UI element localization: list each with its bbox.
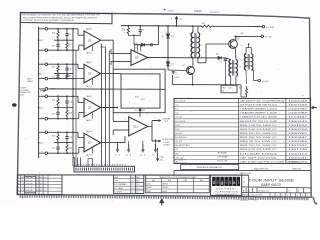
- wire T1 connections: [192, 26, 194, 32]
- svg-text:C5,C8: C5,C8: [176, 117, 183, 119]
- svg-text:CHG 14B: CHG 14B: [26, 180, 33, 182]
- svg-text:1000041: 1000041: [288, 157, 309, 159]
- svg-text:4: 4: [277, 195, 278, 197]
- arrow annotation below border: [160, 199, 164, 206]
- diode D27: [167, 61, 169, 62]
- svg-text:R24: R24: [52, 100, 55, 102]
- svg-text:10-9: 10-9: [136, 188, 139, 190]
- svg-text:E1 TEST: E1 TEST: [266, 27, 275, 29]
- wire mid stub: [128, 35, 140, 37]
- note box: [21, 13, 113, 24]
- svg-text:CHG 34B: CHG 34B: [26, 187, 33, 189]
- handwritten scribble bottom left of title: [241, 199, 257, 200]
- capacitor C6: [66, 29, 68, 34]
- op-amp E4 pin label bottom: [92, 148, 94, 154]
- svg-text:1300447: 1300447: [288, 137, 309, 139]
- op-amp E1: [84, 31, 101, 50]
- resistor R16: [57, 29, 59, 40]
- wire NC stub: [157, 148, 159, 159]
- svg-text:05-40: 05-40: [19, 95, 24, 97]
- capacitor C16: [66, 132, 68, 136]
- svg-text:C1,C7,C9: C1,C7,C9: [176, 101, 186, 103]
- connector terminal pin 1: [39, 28, 45, 30]
- svg-text:A-PL-B6022-0: A-PL-B6022-0: [287, 161, 298, 164]
- svg-text:R16: R16: [52, 32, 55, 34]
- resistor R56 loop: [245, 70, 247, 73]
- svg-text:10-4: 10-4: [136, 181, 139, 183]
- svg-text:D6,D8: D6,D8: [176, 133, 183, 135]
- resistor R25: [57, 132, 59, 142]
- svg-text:11-2: 11-2: [131, 192, 134, 194]
- capacitor C14: [66, 96, 68, 101]
- svg-text:RES 10K 5% 1/4W CC: RES 10K 5% 1/4W CC: [240, 137, 278, 139]
- svg-text:TRANSISTOR & DIODE CONVERSION: TRANSISTOR & DIODE CONVERSION CHART: [159, 176, 197, 179]
- svg-text:9: 9: [302, 195, 303, 197]
- svg-text:CHG 04B: CHG 04B: [26, 177, 33, 179]
- svg-text:C15: C15: [52, 113, 55, 115]
- wire to op-amp E3 inputs: [73, 95, 78, 97]
- svg-text:TRANSISTOR DEC 3009B: TRANSISTOR DEC 3009B: [240, 116, 278, 119]
- svg-text:E4: E4: [88, 141, 92, 145]
- transistor Q1: [187, 67, 195, 75]
- output wire EL OUT: [235, 35, 261, 37]
- svg-text:D664: D664: [147, 183, 151, 185]
- svg-text:FB(L) 2: FB(L) 2: [38, 40, 44, 42]
- svg-text:9-4: 9-4: [44, 187, 46, 189]
- wire E1 output: [101, 39, 114, 41]
- wires T3 top: [245, 48, 247, 54]
- svg-text:R1,R4,R7,R10: R1,R4,R7,R10: [176, 145, 191, 147]
- svg-text:3: 3: [189, 57, 190, 59]
- channel E3 input wires: [49, 95, 73, 97]
- svg-text:CHG 44B: CHG 44B: [26, 190, 33, 192]
- svg-text:LAS (B)VAR: LAS (B)VAR: [217, 152, 228, 155]
- svg-text:RES 4.7K 5% 1/4W CC: RES 4.7K 5% 1/4W CC: [240, 149, 278, 151]
- connector terminal pin 5: [39, 95, 45, 97]
- wire GND rail: [49, 88, 165, 90]
- svg-text:R50: R50: [222, 87, 225, 89]
- diode D3 to test point: [134, 44, 141, 46]
- svg-text:C4: C4: [220, 62, 222, 64]
- wires to edge connector: [74, 158, 76, 167]
- parts list table: [174, 99, 311, 164]
- svg-text:SPLIT: SPLIT: [27, 79, 33, 81]
- wire to op-amp E1 inputs: [73, 28, 78, 30]
- svg-text:D26: D26: [171, 36, 174, 38]
- wire to Q1 base: [168, 69, 186, 72]
- svg-text:24022/C-7: 24022/C-7: [210, 12, 221, 14]
- svg-text:D24: D24: [216, 54, 219, 56]
- capacitor C4: [66, 64, 68, 68]
- svg-text:l: l: [238, 180, 239, 185]
- svg-text:PRINTED CIRCUIT REV.: PRINTED CIRCUIT REV.: [242, 195, 263, 197]
- svg-text:-15: -15: [152, 154, 155, 156]
- signature date column: [136, 175, 144, 194]
- resistor R47 on rail: [199, 25, 214, 27]
- svg-text:1300364: 1300364: [288, 141, 309, 143]
- resistor R28: [66, 143, 68, 154]
- page-edge mark: [12, 103, 17, 106]
- svg-text:1050348: 1050348: [288, 105, 309, 107]
- svg-text:(NC): (NC): [159, 159, 163, 161]
- svg-text:FB(L) 1: FB(L) 1: [38, 73, 44, 75]
- svg-text:E3: E3: [88, 106, 92, 110]
- svg-text:R25: R25: [52, 135, 55, 137]
- test point E1 TEST: [262, 25, 264, 27]
- svg-text:CAP 100PF 100V 5% MIC: CAP 100PF 100V 5% MIC: [240, 156, 278, 159]
- connector terminal pin 8: [39, 152, 45, 154]
- svg-text:(+10V): (+10V): [164, 142, 170, 144]
- svg-text:C O R P O R A T I O N: C O R P O R A T I O N: [215, 191, 237, 194]
- svg-text:F-B,A,T: F-B,A,T: [164, 144, 171, 147]
- svg-text:R7: R7: [69, 45, 71, 47]
- svg-text:COPYRIGHT 1967 BY DIGITAL EQUI: COPYRIGHT 1967 BY DIGITAL EQUIPMENT CORP…: [22, 19, 74, 22]
- svg-text:E. ECKERMAN: E. ECKERMAN: [114, 183, 127, 186]
- reference designation header: [181, 165, 239, 170]
- diode D24 on E5 line: [218, 56, 221, 59]
- wires T2 to box: [230, 76, 232, 85]
- wire E11 output to STROBE OUT: [148, 125, 152, 127]
- capacitor C8 on rail: [139, 26, 141, 30]
- svg-text:+10: +10: [134, 110, 137, 112]
- svg-text:10-7: 10-7: [131, 184, 134, 186]
- svg-text:1A(T) 2: 1A(T) 2: [86, 52, 92, 55]
- svg-text:C6: C6: [69, 34, 71, 36]
- svg-text:C60: C60: [229, 87, 232, 89]
- description header row: [174, 163, 239, 165]
- svg-text:FB(L) 3: FB(L) 3: [38, 107, 44, 109]
- diode D26: [167, 33, 169, 34]
- capacitor C4: [221, 57, 225, 59]
- svg-text:(E2): (E2): [241, 33, 245, 35]
- wire Q2 collector: [234, 36, 236, 39]
- svg-text:R8: R8: [69, 76, 71, 78]
- junction dots: [57, 95, 59, 97]
- parts list band: [173, 171, 175, 175]
- svg-text:Q1,Q2: Q1,Q2: [176, 141, 183, 143]
- signature block: [114, 175, 144, 194]
- svg-text:E5: E5: [135, 56, 139, 60]
- cells right of logo: [247, 175, 249, 197]
- svg-text:E2: E2: [88, 72, 92, 76]
- resistor R8: [66, 74, 68, 79]
- edge connector strip: [74, 166, 135, 172]
- svg-text:R23: R23: [122, 30, 125, 32]
- svg-text:D662: D662: [147, 191, 151, 193]
- svg-text:1300298: 1300298: [288, 129, 309, 131]
- svg-text:3: 3: [272, 195, 273, 197]
- svg-text:CAP 3300PF 35V 5% DIPPED MICA: CAP 3300PF 35V 5% DIPPED MICA: [240, 100, 285, 103]
- op-amp E2 pin label bottom: [92, 79, 94, 85]
- svg-text:REFERENCE DESIGNATION: REFERENCE DESIGNATION: [196, 166, 222, 169]
- svg-text:10-9: 10-9: [131, 188, 134, 190]
- svg-text:2100988: 2100988: [288, 113, 309, 115]
- svg-text:E Q U I P M E N T: E Q U I P M E N T: [217, 188, 237, 190]
- svg-text:9-4: 9-4: [44, 190, 46, 192]
- svg-text:XSTR&DIODE NETS (D): XSTR&DIODE NETS (D): [240, 105, 278, 107]
- channel E2 input wires: [49, 63, 73, 65]
- svg-text:4: 4: [255, 55, 256, 57]
- svg-text:D27: D27: [171, 64, 174, 66]
- edge connector pin labels: [75, 164, 127, 165]
- op-amp E5: [131, 50, 148, 66]
- svg-text:R28: R28: [69, 147, 72, 149]
- svg-text:1100113: 1100113: [288, 153, 309, 155]
- svg-text:D5,D9,D10: D5,D9,D10: [176, 137, 188, 139]
- diode rail wire: [167, 26, 169, 70]
- connector terminal pin 7: [39, 131, 45, 133]
- svg-text:SLICE LEVEL: SLICE LEVEL: [163, 139, 175, 141]
- svg-text:0.5%: 0.5%: [141, 99, 145, 101]
- svg-text:3A(T) 4: 3A(T) 4: [86, 154, 92, 157]
- wire T2 left top to C4: [226, 58, 231, 60]
- svg-text:THIS SCHEMATIC IS FURNISHED ON: THIS SCHEMATIC IS FURNISHED ONLY FOR TES…: [22, 14, 100, 17]
- svg-text:D1-D4,D8: D1-D4,D8: [176, 121, 187, 123]
- digital logo letter squares: [212, 177, 216, 186]
- transformer T2: [229, 60, 231, 77]
- svg-text:F: F: [18, 187, 19, 189]
- svg-text:1: 1: [189, 34, 190, 36]
- transformer T3: [244, 54, 246, 70]
- svg-text:LINES: LINES: [27, 81, 33, 83]
- connector terminal pin 2: [39, 49, 45, 51]
- resistor R28 pull-up: [139, 112, 141, 117]
- wire E3 output: [101, 107, 118, 109]
- svg-text:2: 2: [189, 45, 190, 47]
- svg-text:4/7: 4/7: [36, 184, 38, 186]
- svg-text:11-2: 11-2: [136, 192, 139, 194]
- capacitor C19: [57, 143, 59, 148]
- svg-text:10-7: 10-7: [136, 184, 139, 186]
- part no footer cell: [286, 158, 311, 160]
- ruler tick strip along bottom border: [19, 195, 309, 200]
- svg-text:R47: R47: [202, 23, 205, 25]
- svg-text:CNCTS LIST: CNCTS LIST: [217, 161, 228, 163]
- svg-text:8: 8: [297, 195, 298, 197]
- svg-text:1513487: 1513487: [288, 117, 309, 119]
- svg-text:RES 100 5% 1/4W CC: RES 100 5% 1/4W CC: [240, 133, 278, 135]
- wire E11 inputs: [113, 120, 129, 122]
- svg-text:0: 0: [307, 195, 308, 197]
- svg-text:PART NO.: PART NO.: [292, 168, 302, 171]
- svg-text:10-4: 10-4: [136, 177, 139, 179]
- scan speckles: [111, 37, 112, 38]
- resistor R18: [66, 108, 68, 119]
- svg-text:+15: +15: [139, 154, 142, 156]
- svg-text:STROBE: STROBE: [163, 118, 172, 120]
- svg-text:RES 3.3K 5% 1/4W CC: RES 3.3K 5% 1/4W CC: [240, 129, 278, 131]
- svg-text:D3: D3: [135, 47, 137, 49]
- svg-text:CAP JUMP 100 PW 5% 1/4W: CAP JUMP 100 PW 5% 1/4W: [240, 160, 284, 163]
- revision table: [17, 175, 62, 195]
- border frame: [17, 13, 311, 198]
- svg-text:10-4: 10-4: [131, 181, 134, 183]
- svg-text:9-4: 9-4: [44, 184, 46, 186]
- DEC logo block: [211, 175, 242, 195]
- svg-text:B 6022-0-1: B 6022-0-1: [259, 191, 271, 193]
- svg-text:4/7: 4/7: [36, 180, 38, 182]
- svg-text:3A(R) 3: 3A(R) 3: [86, 119, 92, 122]
- svg-text:E2 OUT: E2 OUT: [262, 81, 270, 83]
- power arrow -15B: [155, 144, 157, 151]
- pen mark bottom right: [313, 197, 317, 204]
- svg-text:C19: C19: [52, 148, 55, 150]
- svg-text:4A(B) 2: 4A(B) 2: [86, 28, 92, 31]
- svg-text:7: 7: [292, 195, 293, 197]
- svg-text:AMP 6022: AMP 6022: [261, 183, 281, 187]
- svg-text:2A(R) 4: 2A(R) 4: [86, 130, 92, 133]
- svg-text:10 ;-10,F,B TO: 10 ;-10,F,B TO: [175, 160, 187, 162]
- triangle A marker: [172, 72, 174, 74]
- svg-text:CIRCUITS ARE PROPRIETARY IN NA: CIRCUITS ARE PROPRIETARY IN NATURE AND S…: [22, 16, 98, 19]
- svg-text:C17: C17: [52, 45, 55, 47]
- svg-text:PARTS LIST: PARTS LIST: [240, 172, 252, 175]
- channel E4 input wires: [49, 131, 73, 133]
- svg-text:EL OUT: EL OUT: [265, 37, 273, 39]
- bottom wire rail: [173, 84, 242, 86]
- capacitor C18: [57, 74, 59, 76]
- long vertical bus wires: [101, 44, 103, 166]
- svg-text:i: i: [226, 180, 227, 185]
- transistor Q2: [229, 40, 238, 49]
- svg-text:CVR (B)VAR: CVR (B)VAR: [217, 156, 228, 159]
- svg-text:1301746: 1301746: [288, 149, 309, 151]
- svg-text:R19: R19: [52, 67, 55, 69]
- svg-text:DIODE D664: DIODE D664: [240, 153, 280, 155]
- resistor R24: [57, 96, 59, 107]
- arrow annotation at right margin: [312, 106, 317, 108]
- size code number row: [241, 188, 243, 197]
- svg-text:R56: R56: [239, 87, 242, 89]
- resistor R23 on rail: [127, 26, 129, 36]
- connector terminal pin 4: [39, 78, 45, 80]
- resistor R19: [57, 64, 59, 73]
- op-amp E3: [84, 98, 101, 117]
- svg-text:10-4: 10-4: [131, 177, 134, 179]
- svg-text:IN645: IN645: [163, 191, 167, 193]
- component box R50 C60: [221, 85, 237, 93]
- wire top rail: [121, 25, 201, 28]
- svg-text:+15: +15: [125, 154, 128, 156]
- svg-text:E11: E11: [134, 126, 139, 129]
- op-amp E3 pin label bottom: [92, 113, 94, 119]
- wire to SLICE LEVEL: [152, 140, 160, 142]
- svg-text:3009B: 3009B: [147, 187, 152, 189]
- svg-text:CHG 24B: CHG 24B: [26, 184, 33, 186]
- feedback loop rectangle inner: [121, 74, 160, 108]
- op-amp E11: [129, 117, 148, 136]
- svg-text:TRANSFORMER T-2048: TRANSFORMER T-2048: [240, 112, 278, 115]
- svg-text:C16: C16: [69, 137, 72, 139]
- svg-text:C4: C4: [69, 68, 71, 70]
- op-amp E1 pin label bottom: [92, 45, 94, 51]
- svg-text:1000048: 1000048: [288, 101, 309, 103]
- svg-text:3009: 3009: [236, 38, 240, 40]
- svg-text:2N3009: 2N3009: [163, 187, 169, 189]
- connector terminal pin GND: [39, 88, 45, 90]
- svg-text:9-4: 9-4: [44, 180, 46, 182]
- connector terminal pin 6: [39, 118, 45, 120]
- svg-text:4/7: 4/7: [36, 177, 38, 179]
- top margin annotation: [164, 9, 166, 11]
- svg-text:R18: R18: [69, 113, 72, 115]
- wire E5 output: [148, 57, 218, 59]
- svg-text:2A(B) 3: 2A(B) 3: [86, 95, 92, 98]
- wire E2 output: [101, 73, 121, 75]
- wire to op-amp E2 inputs: [73, 63, 78, 65]
- svg-text:5: 5: [255, 68, 256, 70]
- svg-text:FOUR INPUT SENSE: FOUR INPUT SENSE: [249, 178, 295, 182]
- svg-text:DRB 107 A: DRB 107 A: [20, 196, 29, 199]
- svg-text:GMWL: GMWL: [194, 10, 203, 13]
- svg-text:1301526: 1301526: [288, 125, 309, 127]
- supply arrow +15 B: [176, 18, 178, 26]
- svg-text:C8: C8: [142, 29, 144, 31]
- op-amp E4: [84, 133, 101, 152]
- op-amp E2: [84, 64, 101, 83]
- svg-text:5: 5: [282, 195, 283, 197]
- feedback loop rectangle outer: [113, 69, 165, 113]
- transistor diode conversion chart: [146, 175, 210, 193]
- svg-text:9-4: 9-4: [44, 177, 46, 179]
- svg-text:D 4.99: D 4.99: [174, 77, 179, 79]
- op-amp E5 pin stubs: [134, 45, 136, 52]
- wire E5 inputs: [111, 53, 131, 55]
- svg-text:D. LEWIS: D. LEWIS: [114, 192, 123, 194]
- wire E5 pin rail: [135, 44, 159, 46]
- svg-text:E1: E1: [88, 38, 92, 42]
- svg-text:1300365: 1300365: [288, 133, 309, 135]
- svg-text:RES 220 5% 1/4W CC: RES 220 5% 1/4W CC: [240, 145, 278, 147]
- svg-text:R28: R28: [142, 110, 145, 112]
- svg-text:2100985: 2100985: [288, 109, 309, 111]
- vertical input bus: [72, 29, 74, 167]
- svg-text:TRANSFORMER T-2003: TRANSFORMER T-2003: [240, 108, 278, 111]
- junction dots: [57, 131, 59, 133]
- svg-text:RES 1K 5% 1/4W CC: RES 1K 5% 1/4W CC: [240, 141, 278, 143]
- resistor R7: [66, 40, 68, 50]
- wire to op-amp E4 inputs: [73, 131, 78, 133]
- svg-text:C18: C18: [52, 76, 55, 78]
- junction dots: [57, 63, 59, 65]
- svg-text:IN3606: IN3606: [163, 183, 168, 185]
- power arrow +15B: [142, 144, 144, 151]
- power arrow +15A: [128, 144, 130, 151]
- svg-text:R. L. BEST: R. L. BEST: [114, 188, 124, 190]
- svg-text:DESCRIPTION: DESCRIPTION: [254, 169, 268, 171]
- svg-text:1300249: 1300249: [288, 121, 309, 123]
- svg-text:+15: +15: [179, 19, 182, 21]
- svg-text:Q1: Q1: [183, 65, 185, 67]
- connector bracket line: [38, 27, 40, 159]
- svg-text:RESISTOR 750 5% 1/4W: RESISTOR 750 5% 1/4W: [240, 121, 277, 123]
- output wire E2 OUT: [251, 69, 253, 71]
- svg-text:FB(L) 4: FB(L) 4: [38, 142, 44, 144]
- svg-text:1302337: 1302337: [288, 145, 309, 147]
- svg-text:3A(T) 1: 3A(T) 1: [86, 85, 92, 88]
- wire Q2 emitter to T2: [234, 48, 237, 59]
- svg-text:-15: -15: [114, 154, 117, 156]
- svg-text:RES 1.5K 5% 1/4W CC: RES 1.5K 5% 1/4W CC: [240, 125, 278, 127]
- svg-text:T2: T2: [240, 66, 242, 68]
- svg-text:4/7: 4/7: [36, 187, 38, 189]
- svg-text:6: 6: [287, 195, 288, 197]
- connector terminal pin 3: [39, 63, 45, 65]
- channel E1 input wires: [49, 28, 73, 30]
- junction dots: [57, 28, 59, 30]
- svg-text:4/7: 4/7: [36, 190, 38, 192]
- bottom band top line: [17, 174, 248, 176]
